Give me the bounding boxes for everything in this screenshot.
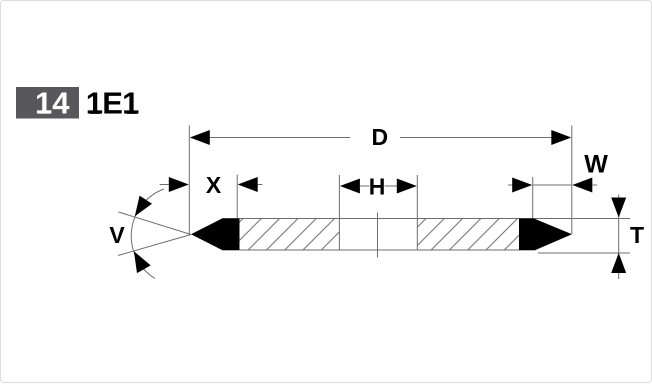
bore left edge	[338, 175, 340, 250]
svg-text:H: H	[369, 174, 386, 200]
T arrow bottom	[611, 253, 626, 273]
abrasive section left (black point)	[191, 219, 240, 251]
D arrow left	[190, 130, 210, 145]
V arc	[131, 189, 164, 279]
V arrow upper	[135, 196, 152, 217]
H dim line left	[360, 185, 370, 187]
V leg lower	[118, 235, 191, 256]
V leg upper	[119, 212, 192, 235]
W arrow left	[512, 178, 532, 193]
W dimension line	[533, 184, 572, 186]
wheel hatched core left	[240, 219, 340, 251]
wheel bottom edge	[222, 249, 536, 251]
W extension line left	[532, 177, 534, 219]
D extension line left	[188, 126, 190, 235]
serif foot of second black 1	[127, 111, 138, 114]
svg-text:X: X	[206, 172, 222, 198]
svg-text:14: 14	[35, 86, 70, 121]
T arrow top	[611, 198, 626, 218]
X arrow left	[169, 177, 189, 192]
svg-text:D: D	[371, 124, 388, 150]
V arrow lower	[134, 251, 151, 273]
W tail line right	[592, 184, 597, 186]
svg-text:W: W	[584, 151, 608, 179]
X tail line right	[258, 184, 263, 186]
svg-text:V: V	[109, 222, 125, 248]
T bottom extension line	[538, 252, 630, 254]
label box 14	[16, 87, 79, 119]
centerline	[377, 213, 379, 258]
H arrow left	[340, 179, 360, 194]
X extension line right	[236, 175, 238, 219]
W arrow right	[572, 178, 592, 193]
D arrow right	[551, 130, 571, 145]
D dimension line left segment	[208, 137, 350, 139]
D extension line right	[571, 126, 573, 235]
abrasive section right (black point)	[519, 219, 572, 251]
H dim line right	[385, 185, 401, 187]
bore right edge	[416, 175, 418, 250]
W tail line left	[508, 184, 513, 186]
X tail line left	[160, 184, 169, 186]
serif foot of white 1	[39, 111, 50, 114]
wheel top edge	[222, 218, 630, 220]
serif foot of first black 1	[90, 111, 101, 114]
D dimension line right segment	[400, 137, 553, 139]
svg-text:T: T	[630, 222, 644, 248]
X arrow right	[238, 177, 258, 192]
H arrow right	[397, 179, 417, 194]
T vertical line	[618, 195, 620, 280]
svg-text:1E1: 1E1	[86, 86, 139, 121]
wheel hatched core right	[417, 219, 519, 251]
